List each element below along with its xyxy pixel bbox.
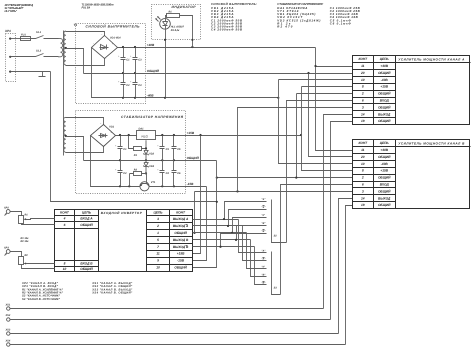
wire R2 wiper to input B — [26, 263, 55, 265]
resistor R1 stab — [129, 136, 147, 158]
connector XP1 — [4, 29, 16, 82]
parts list stabilizer — [277, 2, 359, 28]
resistor R1 indicator — [167, 11, 180, 18]
svg-text:ХS2: ХS2 — [5, 314, 11, 317]
svg-text:СТАБИЛИЗАТОР НАПРЯЖЕНИЯ: СТАБИЛИЗАТОР НАПРЯЖЕНИЯ — [121, 115, 184, 119]
svg-text:ВХОД: ВХОД — [380, 99, 390, 103]
svg-text:ОБЩИЙ: ОБЩИЙ — [187, 156, 200, 160]
wire sec2 top tap to bridge — [66, 118, 104, 125]
potentiometer R1 — [19, 213, 29, 223]
svg-text:VD2: VD2 — [149, 152, 154, 155]
capacitor C5 stab — [172, 136, 182, 161]
wire R2 to common — [22, 265, 55, 269]
svg-text:С6 0,1мкФ: С6 0,1мкФ — [330, 21, 352, 25]
wire XS1 line — [10, 308, 324, 310]
zener VD2 — [144, 140, 155, 160]
capacitor C4 stab — [157, 161, 169, 187]
svg-text:ХР1: ХР1 — [4, 29, 11, 33]
svg-text:+40В: +40В — [380, 148, 388, 152]
connector table input inverter — [55, 210, 193, 272]
svg-text:DA1: DA1 — [139, 128, 145, 131]
svg-text:2: 2 — [156, 224, 159, 228]
svg-text:+15В: +15В — [177, 252, 185, 256]
svg-text:FU1: FU1 — [21, 34, 26, 37]
svg-text:-15В: -15В — [187, 182, 194, 186]
svg-text:3: 3 — [362, 189, 364, 193]
wire XS3 line — [10, 333, 339, 335]
wire +40V rail — [118, 46, 316, 48]
svg-text:11: 11 — [361, 64, 365, 68]
secondary winding 2 — [64, 117, 66, 152]
wire XP3 to R2 — [11, 252, 22, 257]
wire R1 left to LED — [166, 16, 167, 19]
svg-text:ВЫХОД: ВЫХОД — [378, 196, 391, 200]
svg-text:ЦЕПЬ: ЦЕПЬ — [380, 57, 390, 61]
svg-text:ХS1: ХS1 — [5, 303, 11, 306]
wire S3 pole to B6 — [281, 185, 353, 295]
svg-text:19: 19 — [361, 119, 365, 123]
terminal XS1 — [5, 303, 11, 310]
svg-text:5: 5 — [157, 238, 159, 242]
svg-text:+15В: +15В — [380, 85, 388, 89]
switch S3 source selector — [262, 250, 278, 290]
note R1 R2 values — [21, 237, 30, 243]
wire chassis to common drop — [51, 72, 217, 202]
wire XS4 line — [10, 344, 346, 346]
svg-text:-40В: -40В — [381, 162, 389, 166]
svg-text:ОБЩИЙ: ОБЩИЙ — [378, 189, 391, 193]
capacitor C3 stab — [157, 136, 169, 161]
capacitor C1 — [118, 48, 130, 74]
wire R1 wiper to input A — [26, 219, 55, 220]
wire net output B to switches — [193, 226, 267, 277]
wire -40V bus to A10 B10 — [279, 80, 353, 164]
svg-text:С4 2000мкФ 50В: С4 2000мкФ 50В — [211, 28, 242, 32]
svg-text:ОБЩИЙ: ОБЩИЙ — [378, 176, 391, 180]
svg-text:-15В: -15В — [177, 259, 185, 263]
wire mains earth — [11, 71, 51, 73]
svg-text:R2 470: R2 470 — [277, 25, 292, 29]
svg-text:8: 8 — [362, 169, 364, 173]
svg-text:ОБЩИЙ: ОБЩИЙ — [80, 223, 93, 227]
wire +15V drop to inverter — [193, 136, 201, 254]
svg-text:КОНТ: КОНТ — [358, 141, 368, 145]
svg-text:ВЫХОД: ВЫХОД — [378, 112, 391, 116]
svg-text:ОБЩИЙ: ОБЩИЙ — [378, 71, 391, 75]
wire A14 to XS1 — [324, 115, 353, 309]
svg-text:HL1 "СЕТЬ": HL1 "СЕТЬ" — [5, 10, 18, 13]
wire sec1 top tap to bridge — [66, 32, 105, 36]
ground — [39, 72, 46, 77]
wire common bus to B20 — [309, 74, 353, 157]
svg-text:ХS4: ХS4 — [5, 339, 11, 342]
svg-text:ВХОД В: ВХОД В — [80, 262, 93, 266]
bridge rectifier VD1-VD4 — [92, 33, 122, 60]
switch S2 source selector — [262, 198, 278, 237]
svg-text:20: 20 — [360, 155, 365, 159]
transformer T1 — [58, 23, 77, 156]
svg-text:14: 14 — [361, 196, 365, 200]
svg-text:СИЛОВОЙ ВЫПРЯМИТЕЛЬ: СИЛОВОЙ ВЫПРЯМИТЕЛЬ — [86, 25, 141, 29]
svg-text:ВХОДНОЙ ИНВЕРТОР: ВХОДНОЙ ИНВЕРТОР — [101, 211, 143, 215]
bridge rectifier VD1 stab — [91, 123, 116, 148]
svg-text:ЦЕПЬ: ЦЕПЬ — [154, 211, 164, 215]
svg-text:VT1: VT1 — [151, 181, 156, 184]
svg-text:R1 8,2к: R1 8,2к — [171, 29, 180, 32]
wire B14 to XS3 — [339, 199, 353, 334]
module box power rectifier — [76, 24, 146, 104]
transistor VT1 — [140, 174, 156, 191]
svg-text:+15В: +15В — [187, 131, 195, 135]
svg-text:+40В: +40В — [147, 43, 155, 47]
wire sec1 bottom tap to bridge — [66, 59, 105, 66]
svg-text:S1.2: S1.2 — [36, 49, 42, 52]
svg-text:+40В: +40В — [380, 64, 388, 68]
svg-text:ОБЩИЙ: ОБЩИЙ — [378, 105, 391, 109]
svg-text:ЦЕПЬ: ЦЕПЬ — [380, 141, 390, 145]
svg-text:ОБЩИЙ: ОБЩИЙ — [80, 267, 93, 271]
wire sec2 bottom tap to bridge — [66, 147, 104, 153]
svg-text:ВЫХОД А: ВЫХОД А — [173, 217, 189, 221]
wire +40V bus to A11 B11 — [314, 48, 352, 151]
svg-text:ОБЩИЙ: ОБЩИЙ — [174, 266, 187, 270]
svg-text:ВЫХОД В: ВЫХОД В — [173, 238, 189, 242]
capacitor C1 stab — [115, 136, 127, 161]
switch S1.2 — [11, 49, 59, 56]
svg-text:ОБЩИЙ: ОБЩИЙ — [378, 92, 391, 96]
svg-text:3: 3 — [157, 217, 159, 221]
module box indicator — [152, 5, 201, 40]
svg-text:9: 9 — [157, 259, 159, 263]
svg-text:20: 20 — [360, 71, 365, 75]
svg-text:7: 7 — [157, 245, 159, 249]
wire S3 pole hook — [272, 288, 281, 295]
resistor R2 stab — [130, 169, 147, 187]
terminal XS3 — [5, 328, 11, 335]
fuse FU1 — [11, 34, 31, 41]
svg-text:10: 10 — [361, 78, 365, 82]
svg-text:ОБЩИЙ: ОБЩИЙ — [378, 155, 391, 159]
wire -40V rail — [92, 48, 280, 99]
wire net output B-inv to switches — [193, 234, 267, 285]
wire sec1 center tap to common rail — [65, 47, 84, 74]
capacitor C2 stab — [115, 161, 127, 187]
secondary winding 1 — [64, 31, 66, 65]
svg-text:6: 6 — [362, 99, 364, 103]
svg-text:УСИЛИТЕЛЬ МОЩНОСТИ КАНАЛ А: УСИЛИТЕЛЬ МОЩНОСТИ КАНАЛ А — [398, 57, 465, 61]
svg-text:ВХОД: ВХОД — [380, 183, 390, 187]
switch S1.1 — [31, 31, 59, 38]
wire sec2 center tap to stab common — [65, 135, 84, 161]
svg-text:HL1 АЛ307: HL1 АЛ307 — [171, 25, 185, 28]
regulator DA1 — [137, 128, 156, 140]
svg-text:10: 10 — [156, 266, 160, 270]
wire net output A-inv to switches — [193, 210, 267, 261]
svg-text:6: 6 — [362, 183, 364, 187]
wire R1 to +40V — [180, 16, 194, 48]
wire XS2 line — [10, 319, 331, 321]
wire common rail — [84, 72, 353, 74]
svg-text:ХS4 "КАНАЛ В. ОБЩИЙ": ХS4 "КАНАЛ В. ОБЩИЙ" — [91, 291, 133, 295]
wire LED to -40V — [164, 30, 166, 98]
svg-text:-: - — [93, 42, 94, 46]
wire A19 to XS2 — [331, 122, 353, 320]
svg-text:4: 4 — [63, 217, 66, 221]
svg-text:КОНТ: КОНТ — [176, 211, 186, 215]
svg-text:ОБЩИЙ: ОБЩИЙ — [378, 119, 391, 123]
wire +15V line — [116, 134, 303, 136]
wire signal ground to A3 — [238, 108, 353, 192]
wire R1 to common — [22, 224, 55, 225]
wire net output A to switches — [193, 202, 267, 253]
svg-text:ХР2: ХР2 — [3, 207, 9, 210]
wire common drop to inverter — [193, 161, 218, 268]
svg-text:+15В: +15В — [380, 169, 388, 173]
terminal XS2 — [5, 314, 11, 321]
svg-text:VD1: VD1 — [109, 125, 114, 128]
svg-text:19: 19 — [361, 203, 365, 207]
svg-text:2: 2 — [361, 92, 364, 96]
wire S2 pole to A6 — [287, 101, 353, 243]
wire stab common rail — [84, 159, 217, 161]
svg-text:ОБЩИЙ: ОБЩИЙ — [147, 69, 160, 73]
svg-text:8: 8 — [362, 85, 364, 89]
svg-text:11: 11 — [361, 148, 365, 152]
wire +15V bus to A8 B8 — [302, 87, 353, 171]
svg-text:VD3: VD3 — [149, 165, 154, 168]
svg-text:ВХОД А: ВХОД А — [80, 217, 93, 221]
capacitor C6 stab — [172, 161, 182, 187]
wire B19 to XS4 — [346, 206, 353, 345]
svg-text:-40В: -40В — [147, 94, 154, 98]
zener VD3 — [144, 160, 155, 174]
svg-text:S1.1: S1.1 — [36, 31, 42, 34]
potentiometer R2 — [19, 254, 29, 265]
note XP1/S1/HL1 functions — [4, 4, 34, 13]
svg-text:S3 "КАНАЛ В. ИСТОЧНИК": S3 "КАНАЛ В. ИСТОЧНИК" — [22, 298, 61, 301]
svg-text:3: 3 — [362, 105, 364, 109]
note T1/FU1 values — [82, 4, 115, 10]
svg-text:-: - — [93, 131, 94, 134]
svg-text:8: 8 — [64, 262, 66, 266]
wire XP2 to R1 — [11, 212, 22, 216]
svg-text:ХS3: ХS3 — [5, 328, 11, 331]
svg-text:REG: REG — [142, 134, 149, 138]
wire -15V drop to inverter — [193, 187, 207, 261]
capacitor C2 — [118, 74, 130, 98]
svg-text:2: 2 — [361, 176, 364, 180]
svg-text:1: 1 — [157, 231, 159, 235]
svg-text:УСИЛИТЕЛЬ МОЩНОСТИ КАНАЛ В: УСИЛИТЕЛЬ МОЩНОСТИ КАНАЛ В — [398, 141, 465, 145]
svg-text:КОНТ: КОНТ — [358, 57, 368, 61]
wire S2 pole hook — [272, 236, 287, 243]
svg-text:ХР3: ХР3 — [3, 247, 9, 250]
svg-text:14: 14 — [361, 112, 365, 116]
svg-text:ЦЕПЬ: ЦЕПЬ — [82, 211, 92, 215]
svg-text:КОНТ: КОНТ — [60, 211, 70, 215]
wire common to B2 — [216, 177, 353, 179]
svg-text:10: 10 — [361, 162, 365, 166]
core — [63, 31, 65, 156]
svg-text:ОБЩИЙ: ОБЩИЙ — [378, 203, 391, 207]
svg-text:ОБЩИЙ: ОБЩИЙ — [174, 231, 187, 235]
wire -15V line — [91, 136, 207, 188]
primary winding — [58, 39, 63, 57]
legend connector functions — [21, 282, 133, 301]
module box stabilizer — [76, 111, 186, 194]
svg-text:10: 10 — [63, 267, 67, 271]
svg-text:-40В: -40В — [381, 78, 389, 82]
svg-text:11: 11 — [156, 252, 160, 256]
wire signal ground to B3 — [193, 190, 352, 234]
wire stab common bus to A2 — [297, 94, 353, 178]
capacitor C3 — [130, 48, 142, 74]
connector table amplifier channel A — [353, 56, 471, 125]
wire net signal common to switches — [193, 218, 267, 269]
connector XP2 — [3, 207, 10, 216]
connector table amplifier channel B — [353, 140, 471, 209]
svg-text:ИНДИКАТОР: ИНДИКАТОР — [172, 5, 197, 9]
svg-text:VD1-VD4: VD1-VD4 — [110, 37, 121, 40]
connector XP3 — [3, 247, 10, 256]
svg-text:FU1 5А: FU1 5А — [82, 6, 91, 9]
capacitor C4 — [130, 74, 142, 98]
parts list power rectifier — [211, 2, 257, 31]
LED HL1 — [156, 16, 185, 32]
terminal XS4 — [5, 339, 11, 346]
svg-text:R2 10к: R2 10к — [21, 240, 30, 243]
svg-text:6: 6 — [64, 223, 66, 227]
